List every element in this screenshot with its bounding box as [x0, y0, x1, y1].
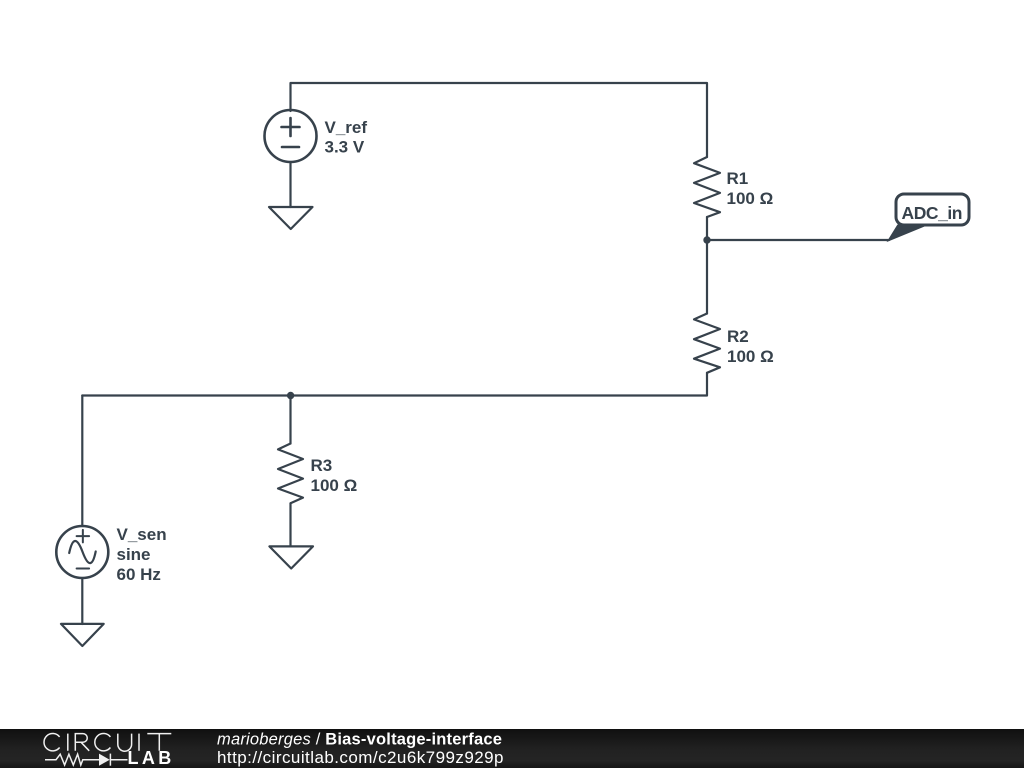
label R2 value: [727, 327, 774, 366]
wire R3 to ground: [289, 503, 291, 546]
node junction at R1/R2/ADC_in: [703, 236, 710, 243]
wire R1 to node: [706, 217, 708, 240]
wire V_sen to ground: [81, 578, 83, 624]
label V_ref value: [325, 118, 368, 157]
svg-text:100 Ω: 100 Ω: [727, 189, 774, 208]
svg-text:sine: sine: [117, 545, 151, 564]
net flag ADC_in: [889, 194, 969, 240]
node junction at bottom rail / R3: [287, 392, 294, 399]
wire node to ADC_in flag: [707, 239, 889, 241]
wire top rail from V_ref to R1: [291, 83, 708, 157]
label R1 value: [727, 169, 774, 208]
voltage source V_sen: [56, 526, 108, 578]
svg-text:V_ref: V_ref: [325, 118, 368, 137]
svg-text:LAB: LAB: [128, 748, 175, 768]
svg-text:100 Ω: 100 Ω: [727, 347, 774, 366]
label V_sen value: [117, 525, 167, 584]
svg-text:marioberges / Bias-voltage-int: marioberges / Bias-voltage-interface: [217, 730, 502, 748]
wire node to R2: [706, 240, 708, 314]
footer bar: [0, 729, 1024, 768]
resistor R2: [694, 314, 720, 373]
voltage source V_ref: [265, 110, 317, 162]
resistor R1: [694, 157, 720, 217]
ground (below V_sen): [61, 624, 104, 646]
ground (below V_ref): [269, 207, 313, 229]
svg-text:V_sen: V_sen: [117, 525, 167, 544]
logo resistor-diode glyph: [45, 754, 128, 766]
ground (below R3): [269, 546, 313, 568]
resistor R3: [278, 444, 303, 504]
svg-text:http://circuitlab.com/c2u6k799: http://circuitlab.com/c2u6k799z929p: [217, 748, 504, 767]
wire bottom rail from R2 to V_sen: [82, 373, 707, 396]
svg-text:R3: R3: [311, 456, 333, 475]
svg-text:60 Hz: 60 Hz: [117, 565, 161, 584]
svg-text:R2: R2: [727, 327, 749, 346]
svg-text:ADC_in: ADC_in: [902, 203, 963, 223]
wire node to R3: [289, 396, 291, 444]
wire bottom rail to V_sen: [81, 396, 83, 527]
wire V_ref to ground: [289, 162, 291, 207]
logo CIRCUIT wordmark (thin stroked letters): [44, 733, 171, 751]
svg-text:100 Ω: 100 Ω: [311, 476, 358, 495]
svg-text:3.3 V: 3.3 V: [325, 138, 365, 157]
label R3 value: [311, 456, 358, 495]
svg-text:R1: R1: [727, 169, 749, 188]
